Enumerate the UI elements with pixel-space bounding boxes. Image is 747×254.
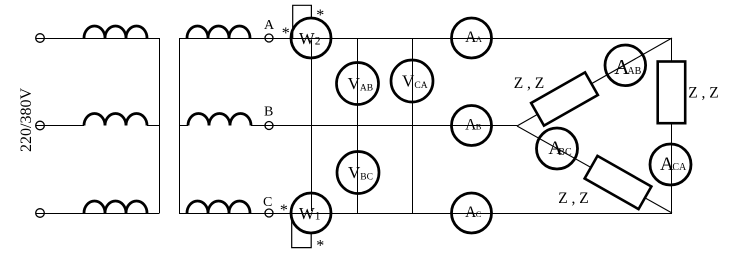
svg-text:*: * [316, 237, 324, 254]
voltmeter V_BC [337, 152, 379, 194]
ammeter A_C [452, 193, 492, 233]
svg-text:220/380V: 220/380V [18, 88, 35, 152]
svg-text:2: 2 [315, 36, 321, 48]
wire phase B left [36, 125, 85, 127]
svg-text:*: * [280, 202, 288, 219]
impedance Z,Z branch C-A [658, 62, 686, 124]
label 220/380V [18, 88, 35, 152]
inductor L2 primary phase B [84, 114, 147, 126]
wire phase A left (through coil L1) [36, 38, 160, 40]
svg-text:CA: CA [414, 81, 427, 91]
svg-text:AB: AB [627, 66, 641, 77]
impedance Z,Z branch B-C [585, 156, 652, 209]
ammeter A_B [452, 106, 492, 146]
svg-text:A: A [264, 18, 275, 33]
svg-text:*: * [282, 25, 290, 42]
wattmeter W2 [291, 18, 331, 58]
svg-text:V: V [348, 163, 361, 182]
wire [147, 125, 159, 127]
svg-text:CA: CA [672, 162, 687, 173]
terminal input A [36, 34, 45, 43]
wire phase C left [36, 213, 160, 215]
terminal input C [36, 209, 45, 218]
svg-text:1: 1 [315, 211, 321, 223]
ammeter A_CA [650, 144, 691, 185]
svg-text:C: C [263, 195, 272, 210]
node C terminal [265, 209, 273, 217]
inductor L5 secondary phase B [188, 114, 251, 126]
wattmeter W2 current-coil bracket [293, 5, 312, 38]
wire branch C-A right vertical [671, 38, 673, 214]
voltmeter V_CA [391, 60, 433, 102]
voltmeter bus V_AB/V_BC vertical [357, 38, 359, 214]
wattmeter W1 [291, 193, 331, 233]
wire phase A secondary [179, 38, 672, 40]
wattmeter W2 voltage-coil wire vertical [311, 40, 313, 211]
svg-text:*: * [316, 7, 324, 24]
bus secondary left vertical [179, 38, 181, 214]
svg-text:Z , Z: Z , Z [514, 75, 545, 92]
svg-text:A: A [476, 34, 483, 44]
terminal input B [36, 121, 45, 130]
inductor L4 secondary phase A [187, 26, 250, 38]
wire branch B-C diagonal [517, 126, 672, 213]
svg-text:AB: AB [360, 83, 373, 93]
wire branch A-B diagonal [517, 38, 672, 126]
bus primary right vertical [159, 38, 161, 214]
inductor L1 primary phase A [84, 26, 147, 38]
wattmeter W1 current-coil bracket [292, 213, 312, 248]
svg-text:V: V [348, 74, 361, 93]
voltmeter bus V_CA vertical [412, 38, 414, 214]
svg-text:Z , Z: Z , Z [688, 85, 719, 102]
ammeter A_AB [605, 45, 646, 86]
wire phase B secondary [251, 125, 517, 127]
svg-text:BC: BC [360, 173, 373, 183]
node A terminal [265, 34, 273, 42]
svg-text:C: C [476, 209, 482, 219]
impedance Z,Z branch A-B [531, 72, 598, 125]
voltmeter V_AB [337, 63, 379, 105]
svg-text:W: W [299, 204, 315, 223]
svg-text:B: B [476, 122, 482, 132]
svg-text:Z , Z: Z , Z [558, 190, 589, 207]
svg-text:B: B [264, 105, 273, 120]
svg-text:V: V [402, 72, 415, 91]
svg-text:BC: BC [558, 147, 572, 158]
ammeter A_A [452, 18, 492, 58]
inductor L6 secondary phase C [187, 201, 250, 213]
ammeter A_BC [537, 128, 578, 169]
svg-text:W: W [299, 29, 315, 48]
wire phase C secondary [179, 213, 672, 215]
wire phase B secondary left [179, 125, 188, 127]
inductor L3 primary phase C [84, 201, 147, 213]
node B terminal [265, 122, 273, 130]
